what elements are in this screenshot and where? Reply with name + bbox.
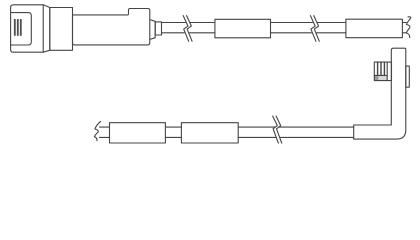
sensor moulded body with step [73,9,150,45]
connector pin window [11,13,31,45]
cable cut squiggle (top right) [406,17,410,38]
wire: bottom cable segment 4 [279,127,354,137]
terminal ribs [378,62,385,75]
terminal block dark corner [374,75,378,80]
wire: bottom cable segment 2 [165,127,181,137]
wire: top cable segment 1 [162,23,186,33]
break mark 3 (right zigzag) [276,116,282,143]
break mark 1 (right zigzag) [187,16,193,42]
wire: bottom cable stub from cut mark [100,127,110,137]
tapered neck between plug and barrel [43,5,50,52]
right-angle sensor head: sleeve, elbow and vertical body [354,48,406,139]
protective sleeve box 2 (top cable) [346,19,403,38]
connector plug housing (top-left) [11,5,44,52]
wire: top cable segment 3 [271,23,313,33]
strain-relief collar (taper) [150,20,155,40]
mounting tab on right of sensor head [406,66,410,87]
terminal inner divider [374,62,387,81]
break mark 1 (left zigzag) [183,16,189,42]
wire: top cable segment 4 [316,23,346,33]
strain-relief collar (sleeve) [155,22,161,35]
cable cut squiggle (bottom left) [94,122,100,141]
protective sleeve box 2 (bottom cable) [181,123,238,143]
break mark 3 (left zigzag) [273,116,279,143]
wire: top cable segment 2 [189,23,215,33]
connector pins (3 terminals) [14,19,22,36]
break mark 2 (left zigzag) [310,16,316,42]
terminal block shading band [374,75,387,80]
wire: top cable stub to cut mark [402,23,406,33]
protective sleeve box 1 (top cable) [215,19,271,38]
wire: bottom cable segment 3 [238,127,276,137]
break mark 2 (right zigzag) [314,16,320,42]
barrel section [50,8,73,51]
ribbed terminal block (left of head) [374,62,391,81]
protective sleeve box 1 (bottom cable) [110,123,166,143]
